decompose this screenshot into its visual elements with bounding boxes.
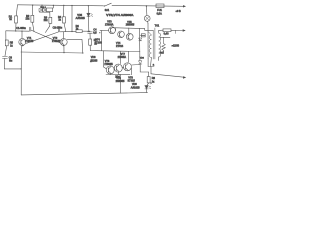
wire cross coupling B [26,32,58,43]
svg-text:2Т905А: 2Т905А [118,56,127,59]
lamp HL1 [144,6,150,24]
wire VT2 base side link [67,39,83,53]
wire main left vertical [20,52,22,95]
transistor VT1 [19,31,26,52]
capacitor C3 [3,56,8,58]
resistor R2 [31,5,34,31]
svg-text:2Т203: 2Т203 [95,42,103,45]
svg-text:0,43: 0,43 [164,32,169,35]
transistor VT8 [123,63,131,71]
wire drop VT7 [119,51,121,63]
diode VD5 on drive line [139,38,142,41]
wire stub box to rail [52,5,54,8]
diode VD6 [139,61,142,64]
transistor VT5 [126,33,133,40]
resistor R1 [15,5,18,31]
wire R7 down [90,45,140,51]
wire top rail right segment [112,4,185,7]
svg-text:2Т315Б: 2Т315Б [25,40,34,43]
wire C4 to R7 [89,33,91,39]
junction dot lamp branch [146,5,147,6]
switch SA1 [104,3,112,6]
wire diode row base [39,11,49,13]
svg-text:№2: №2 [160,51,165,54]
wire cross coupling A [34,32,60,43]
svg-text:2Т315Б: 2Т315Б [52,40,61,43]
wire C1 to R2 node [31,30,34,31]
heater zigzag element [162,37,166,53]
transformer TV1 core [153,28,155,59]
transistor VT7 [114,64,122,75]
wire top rail left segment [18,5,104,6]
svg-text:Д226Б: Д226Б [90,59,98,62]
LED VD9 [145,86,151,93]
resistor R5 [5,31,8,56]
wire secondary tap [160,36,170,38]
wire secondary top to R9 [159,30,163,32]
wire emitter bus [21,52,83,53]
transformer TV1 primary winding [149,35,151,58]
wire collector VT2 node [60,30,76,32]
resistor R7 [89,39,92,45]
wire lamp down to winding side [147,24,149,59]
resistor R9 horizontal [163,29,171,32]
junction dots [15,5,120,76]
node arrow 220V upper terminal [183,29,186,31]
transistor VT4 [118,31,125,38]
svg-text:С2-150п: С2-150п [53,27,63,30]
wire transformer bottom [148,57,159,74]
LED VD5 [87,6,93,32]
diode VD1 [41,5,43,8]
svg-text:0,5А: 0,5А [157,12,162,15]
wire bus to bottom rail [119,75,121,93]
wire drop VT8 [128,52,130,63]
wire from rail x72 [71,6,73,32]
transistor VT3 [109,27,116,34]
wire VT8 drop [131,68,133,75]
resistor R4 [63,5,66,31]
svg-text:SA1: SA1 [105,9,110,12]
svg-text:АЛ102Б: АЛ102Б [131,87,140,90]
svg-text:2Т903А: 2Т903А [105,24,114,27]
resistor box in diode chain [46,8,52,12]
wire link to core top [145,29,154,31]
diode VD2 [43,9,46,12]
wire R3 into B [45,26,49,32]
node arrow +9V terminal [183,5,186,7]
wire VT8 collector right [131,64,140,67]
wire tick [175,30,177,33]
wire R6 to C4 [82,30,90,32]
wire base drop [101,31,103,51]
capacitor C4 [88,32,93,34]
capacitor C2 plates [58,29,59,32]
svg-text:5м: 5м [9,60,12,63]
wire C3 down corner [4,58,21,69]
svg-text:ТV1: ТV1 [155,25,160,28]
wire bottom rail [21,93,147,95]
resistor R8 [147,72,150,85]
wire drive line down [139,28,141,60]
wire drop VT6 base [104,51,107,69]
wire drop to VT5 [128,28,130,33]
transistor VT6 [106,66,114,75]
component box on drive line [141,34,145,37]
wire VT3 collector rail [112,27,145,30]
svg-text:2ТР24: 2ТР24 [116,45,124,48]
wire emitters bus [106,74,130,76]
svg-text:С1-680п: С1-680п [16,27,26,30]
svg-text:2N3055: 2N3055 [126,24,135,27]
resistor R6 horizontal [76,30,82,33]
svg-text:+9 В: +9 В [176,10,182,13]
transistor VT2 [60,32,67,53]
svg-text:2Т905Б: 2Т905Б [104,63,113,66]
resistor R3 [49,12,52,26]
wire links between output transistors [114,67,124,69]
svg-text:2N3055: 2N3055 [116,80,125,83]
wire secondary bottom out [151,74,185,78]
node arrow 220V lower terminal [183,76,186,78]
node line VT1 collector [6,30,30,32]
svg-text:VD9: VD9 [132,83,137,86]
svg-text:≈220В: ≈220В [172,44,180,47]
transformer TV1 secondary winding [159,33,161,57]
svg-text:VT3,VT4 АЛ306А: VT3,VT4 АЛ306А [106,14,134,17]
wire VT3 base [100,30,109,32]
fuse FU1 [156,4,164,8]
capacitor C1 plates [29,27,31,31]
wire tick x mark [150,82,152,84]
wire diode down to R8 [140,64,148,72]
svg-text:АЛ102Б: АЛ102Б [76,17,86,20]
wire R9 to terminal [171,29,185,31]
